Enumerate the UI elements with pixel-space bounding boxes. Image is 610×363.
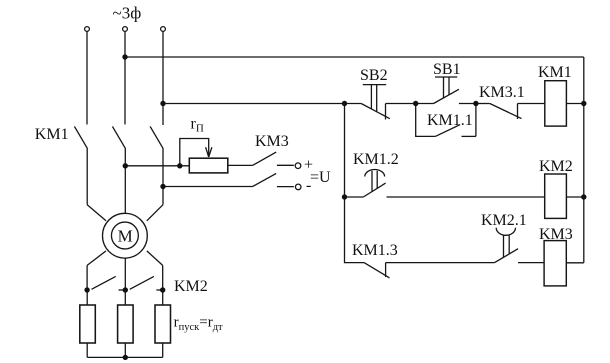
svg-text:KM3: KM3	[255, 133, 289, 150]
svg-text:KM3.1: KM3.1	[479, 84, 525, 101]
svg-text:M: M	[118, 226, 133, 245]
svg-text:KM1.1: KM1.1	[427, 112, 473, 129]
svg-text:rпуск=rдт: rпуск=rдт	[174, 314, 223, 333]
svg-text:KM1.2: KM1.2	[353, 151, 399, 168]
svg-text:KM3: KM3	[539, 226, 573, 243]
svg-text:SB1: SB1	[433, 61, 461, 78]
svg-text:KM1: KM1	[538, 64, 572, 81]
svg-text:~3ф: ~3ф	[113, 4, 142, 23]
svg-text:KM2: KM2	[174, 278, 208, 295]
svg-text:KM1.3: KM1.3	[352, 242, 398, 259]
svg-text:SB2: SB2	[360, 67, 388, 84]
svg-text:KM1: KM1	[35, 126, 69, 143]
svg-text:=U: =U	[310, 169, 331, 186]
svg-text:KM2: KM2	[539, 158, 573, 175]
svg-text:rП: rП	[191, 116, 204, 135]
svg-text:KM2.1: KM2.1	[481, 212, 527, 229]
